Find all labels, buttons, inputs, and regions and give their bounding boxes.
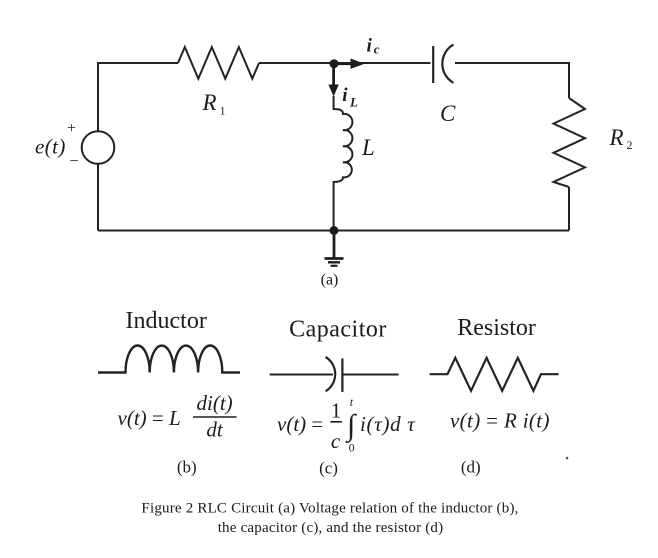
svg-text:Figure 2 RLC Circuit (a) Volta: Figure 2 RLC Circuit (a) Voltage relatio… — [141, 501, 518, 517]
svg-text:Resistor: Resistor — [457, 315, 536, 341]
wire source bottom — [97, 164, 99, 231]
wire R1 to node A — [259, 62, 334, 64]
equation (c): v(t) = 1/c integral i(tau) d tau — [277, 399, 416, 454]
wire node A to capacitor — [334, 62, 431, 64]
wire R2 to bottom-right corner — [568, 187, 570, 231]
svg-text:+: + — [67, 120, 76, 137]
svg-text:Capacitor: Capacitor — [289, 317, 387, 343]
svg-text:1: 1 — [220, 104, 226, 118]
arrow i_L — [328, 64, 338, 97]
inductor symbol (b) — [98, 346, 240, 373]
node A junction dot — [330, 59, 339, 68]
equation (c) fraction bar — [330, 421, 342, 423]
svg-text:(d): (d) — [461, 458, 481, 477]
svg-text:v(t) = R i(t): v(t) = R i(t) — [450, 409, 550, 433]
svg-text:L: L — [349, 95, 358, 110]
capacitor C right curved plate — [442, 45, 453, 83]
svg-text:e(t): e(t) — [35, 135, 66, 159]
capacitor symbol (c) left lead — [270, 374, 333, 376]
svg-text:L: L — [361, 135, 375, 160]
svg-text:R: R — [609, 125, 624, 150]
equation (b): v(t) = L di(t)/dt — [118, 391, 233, 442]
wire capacitor to top-right corner — [455, 63, 569, 98]
arrow i_c — [334, 59, 365, 69]
svg-text:c: c — [374, 42, 380, 57]
svg-text:dt: dt — [206, 418, 224, 442]
svg-text:R: R — [202, 90, 217, 115]
svg-text:(c): (c) — [319, 459, 338, 478]
capacitor C left plate — [432, 46, 434, 83]
voltage source e(t) — [82, 131, 115, 164]
wire top-left from source to R1 — [98, 63, 178, 131]
svg-text:1: 1 — [331, 399, 342, 423]
equation (b) fraction bar — [193, 416, 237, 418]
capacitor symbol (c) curved plate — [326, 357, 336, 391]
svg-text:t: t — [350, 395, 354, 409]
resistor R1 — [178, 47, 259, 79]
capacitor symbol (c) right lead — [342, 374, 398, 376]
svg-text:C: C — [440, 101, 456, 126]
stray dot — [566, 457, 569, 460]
svg-text:the capacitor (c), and the res: the capacitor (c), and the resistor (d) — [218, 520, 444, 536]
ground — [325, 231, 344, 266]
svg-text:∫: ∫ — [345, 409, 357, 444]
svg-text:v(t) =: v(t) = — [277, 412, 323, 436]
svg-text:(a): (a) — [321, 272, 339, 289]
svg-text:i: i — [342, 85, 348, 106]
svg-text:2: 2 — [627, 138, 633, 152]
svg-text:v(t) = L: v(t) = L — [118, 406, 181, 430]
capacitor symbol (c) straight plate — [341, 358, 343, 392]
svg-text:Inductor: Inductor — [126, 308, 207, 334]
svg-text:i(τ)d τ: i(τ)d τ — [360, 412, 416, 436]
node B junction dot — [330, 226, 339, 235]
resistor R2 — [554, 98, 586, 187]
wire bottom — [98, 230, 569, 232]
resistor symbol (d) — [430, 358, 559, 391]
svg-text:−: − — [70, 153, 79, 170]
svg-text:(b): (b) — [177, 458, 197, 477]
svg-text:0: 0 — [349, 441, 355, 455]
svg-text:c: c — [331, 429, 341, 453]
svg-text:i: i — [367, 36, 373, 57]
inductor L — [334, 96, 353, 231]
svg-text:di(t): di(t) — [197, 391, 233, 415]
